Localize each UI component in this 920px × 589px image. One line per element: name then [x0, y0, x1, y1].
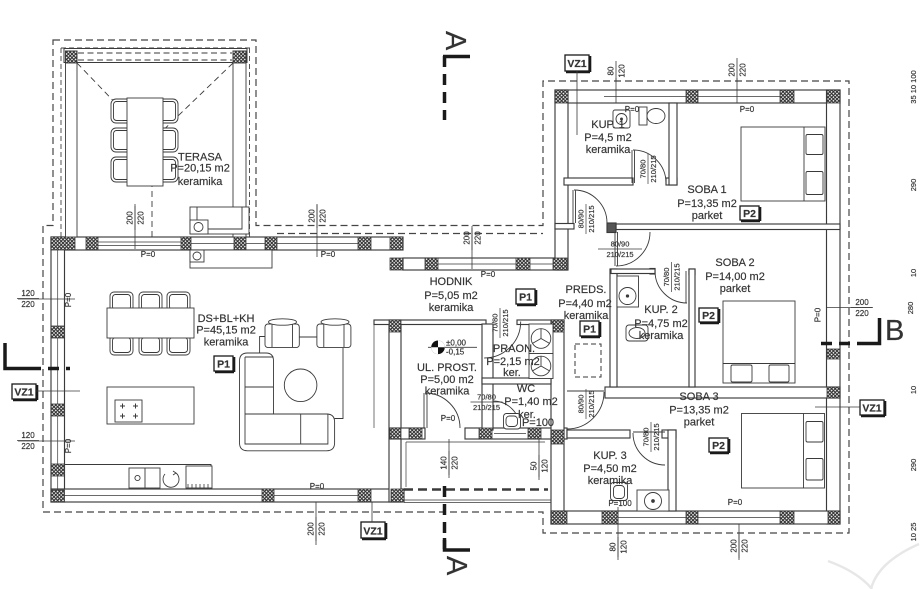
svg-text:220: 220 — [739, 63, 748, 77]
svg-text:VZ1: VZ1 — [14, 387, 33, 399]
svg-text:keramika: keramika — [425, 386, 471, 398]
svg-text:35 10 100: 35 10 100 — [909, 70, 918, 103]
svg-text:210/215: 210/215 — [649, 155, 658, 182]
svg-text:-0,15: -0,15 — [446, 348, 465, 357]
svg-text:140: 140 — [440, 456, 449, 470]
svg-text:80: 80 — [609, 542, 618, 551]
svg-text:220: 220 — [451, 456, 460, 470]
svg-text:DS+BL+KH: DS+BL+KH — [198, 313, 255, 325]
svg-text:P=1,40 m2: P=1,40 m2 — [504, 396, 558, 408]
svg-text:VZ1: VZ1 — [567, 58, 586, 70]
svg-text:80/90: 80/90 — [611, 240, 630, 249]
svg-text:keramika: keramika — [586, 144, 632, 156]
svg-text:220: 220 — [21, 442, 35, 451]
svg-text:PREDS.: PREDS. — [566, 284, 607, 296]
svg-text:200: 200 — [728, 63, 737, 77]
svg-text:SOBA 1: SOBA 1 — [687, 184, 726, 196]
svg-text:P=0: P=0 — [141, 250, 156, 259]
svg-text:P1: P1 — [583, 324, 596, 336]
svg-text:KUP. 3: KUP. 3 — [593, 450, 626, 462]
svg-text:210/215: 210/215 — [473, 403, 500, 412]
svg-text:70/80: 70/80 — [477, 393, 496, 402]
svg-text:P=0: P=0 — [740, 105, 755, 114]
svg-text:210/215: 210/215 — [587, 390, 596, 417]
svg-text:parket: parket — [720, 283, 751, 295]
svg-text:WC: WC — [517, 383, 535, 395]
svg-text:SOBA 3: SOBA 3 — [679, 391, 718, 403]
svg-text:70/80: 70/80 — [639, 160, 648, 179]
svg-text:keramika: keramika — [588, 475, 634, 487]
svg-text:200: 200 — [855, 298, 869, 307]
svg-text:120: 120 — [21, 289, 35, 298]
svg-text:P=4,50 m2: P=4,50 m2 — [583, 463, 637, 475]
svg-text:210/215: 210/215 — [587, 205, 596, 232]
svg-text:220: 220 — [318, 522, 327, 536]
svg-text:290: 290 — [909, 179, 918, 192]
svg-text:70/80: 70/80 — [662, 268, 671, 287]
svg-text:VZ1: VZ1 — [363, 526, 382, 538]
svg-text:80/90: 80/90 — [577, 210, 586, 229]
svg-text:P=20,15 m2: P=20,15 m2 — [170, 163, 230, 175]
svg-text:P=0: P=0 — [625, 105, 640, 114]
svg-text:P=13,35 m2: P=13,35 m2 — [677, 198, 737, 210]
svg-text:210/215: 210/215 — [673, 263, 682, 290]
svg-text:80/90: 80/90 — [577, 395, 586, 414]
svg-text:280: 280 — [906, 302, 915, 315]
svg-text:P=0: P=0 — [321, 250, 336, 259]
svg-text:70/80: 70/80 — [642, 428, 651, 447]
svg-text:P=13,35 m2: P=13,35 m2 — [669, 405, 729, 417]
svg-text:KUP. 1: KUP. 1 — [591, 119, 624, 131]
svg-text:keramika: keramika — [429, 302, 475, 314]
svg-text:P=0: P=0 — [814, 307, 823, 322]
svg-text:HODNIK: HODNIK — [430, 276, 473, 288]
svg-text:P=0: P=0 — [64, 292, 73, 307]
svg-text:10: 10 — [909, 386, 918, 394]
svg-text:B: B — [885, 315, 904, 347]
svg-text:P2: P2 — [702, 310, 715, 322]
svg-text:70/80: 70/80 — [491, 314, 500, 333]
svg-text:200: 200 — [126, 211, 135, 225]
svg-text:A: A — [439, 31, 471, 51]
svg-text:200: 200 — [463, 231, 472, 245]
svg-text:210/215: 210/215 — [606, 250, 633, 259]
svg-text:P=0: P=0 — [481, 270, 496, 279]
svg-text:210/215: 210/215 — [501, 309, 510, 336]
svg-text:P=4,5 m2: P=4,5 m2 — [584, 132, 631, 144]
svg-text:parket: parket — [684, 417, 715, 429]
svg-text:P=45,15 m2: P=45,15 m2 — [196, 325, 256, 337]
svg-text:80: 80 — [607, 66, 616, 75]
svg-text:P=5,00 m2: P=5,00 m2 — [420, 374, 474, 386]
svg-text:P=0: P=0 — [64, 438, 73, 453]
svg-text:P=100: P=100 — [522, 417, 554, 429]
svg-text:keramika: keramika — [178, 176, 224, 188]
svg-text:keramika: keramika — [639, 330, 685, 342]
svg-text:220: 220 — [21, 300, 35, 309]
svg-text:keramika: keramika — [204, 337, 250, 349]
svg-text:P2: P2 — [743, 208, 756, 220]
svg-text:120: 120 — [620, 540, 629, 554]
svg-text:keramika: keramika — [564, 310, 610, 322]
svg-text:120: 120 — [541, 459, 550, 473]
svg-text:PRAON.: PRAON. — [493, 343, 535, 355]
svg-text:290: 290 — [909, 459, 918, 472]
svg-text:P1: P1 — [217, 359, 230, 371]
svg-text:P=4,40 m2: P=4,40 m2 — [558, 298, 612, 310]
svg-text:200: 200 — [308, 209, 317, 223]
svg-text:P=14,00 m2: P=14,00 m2 — [705, 271, 765, 283]
svg-text:P=100: P=100 — [608, 499, 632, 508]
svg-text:KUP. 2: KUP. 2 — [644, 304, 677, 316]
svg-text:±0,00: ±0,00 — [446, 339, 467, 348]
svg-text:220: 220 — [855, 309, 869, 318]
svg-text:220: 220 — [474, 231, 483, 245]
svg-text:200: 200 — [730, 539, 739, 553]
svg-text:210/215: 210/215 — [652, 423, 661, 450]
svg-text:50: 50 — [530, 461, 539, 470]
svg-text:P=0: P=0 — [728, 498, 743, 507]
svg-text:VZ1: VZ1 — [862, 403, 881, 415]
svg-text:220: 220 — [137, 211, 146, 225]
svg-text:parket: parket — [692, 210, 723, 222]
svg-text:120: 120 — [21, 431, 35, 440]
svg-text:10 25: 10 25 — [909, 523, 918, 542]
svg-text:UL. PROST.: UL. PROST. — [417, 362, 477, 374]
svg-text:P=5,05 m2: P=5,05 m2 — [424, 290, 478, 302]
svg-text:220: 220 — [741, 539, 750, 553]
svg-text:A: A — [440, 556, 472, 576]
svg-text:P=0: P=0 — [441, 414, 456, 423]
svg-text:ker.: ker. — [503, 367, 521, 379]
svg-text:P1: P1 — [519, 292, 532, 304]
svg-text:P2: P2 — [712, 440, 725, 452]
svg-text:10: 10 — [909, 269, 918, 277]
svg-text:P=4,75 m2: P=4,75 m2 — [634, 318, 688, 330]
svg-text:220: 220 — [319, 209, 328, 223]
svg-text:200: 200 — [307, 522, 316, 536]
svg-text:SOBA 2: SOBA 2 — [715, 257, 754, 269]
svg-text:120: 120 — [618, 64, 627, 78]
svg-text:P=0: P=0 — [310, 482, 325, 491]
